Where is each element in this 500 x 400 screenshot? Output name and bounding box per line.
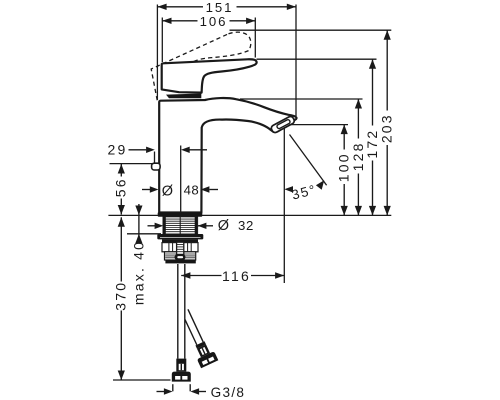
svg-text:48: 48	[184, 183, 200, 198]
svg-text:29: 29	[108, 142, 128, 158]
svg-text:151: 151	[206, 0, 234, 15]
svg-text:203: 203	[379, 113, 395, 143]
svg-text:max. 40: max. 40	[130, 240, 146, 305]
svg-text:106: 106	[200, 14, 228, 29]
svg-text:G3/8: G3/8	[211, 385, 246, 400]
svg-text:370: 370	[113, 281, 129, 311]
svg-text:116: 116	[222, 268, 251, 284]
svg-text:Ø: Ø	[218, 218, 229, 234]
svg-text:56: 56	[113, 177, 129, 197]
svg-text:32: 32	[238, 218, 254, 233]
svg-text:Ø: Ø	[162, 183, 173, 199]
svg-text:172: 172	[364, 129, 380, 159]
